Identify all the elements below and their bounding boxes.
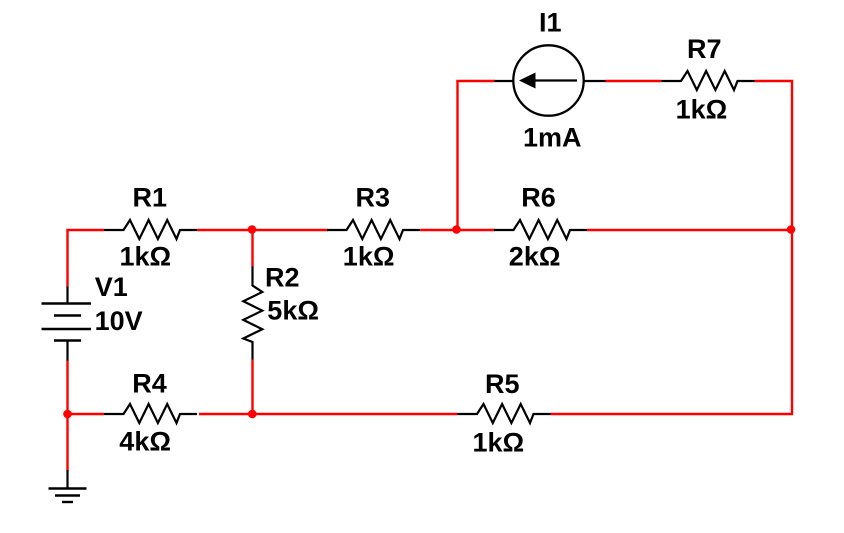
svg-text:1kΩ: 1kΩ — [120, 241, 172, 271]
node B — [248, 225, 257, 234]
svg-text:R1: R1 — [133, 183, 168, 213]
resistor R4 — [104, 368, 197, 456]
node D — [787, 225, 796, 234]
svg-text:1kΩ: 1kΩ — [473, 428, 525, 458]
wire — [456, 80, 495, 82]
wire — [420, 229, 495, 231]
ground — [49, 470, 87, 502]
svg-text:R6: R6 — [521, 183, 556, 213]
node G — [63, 410, 72, 419]
resistor R5 — [458, 369, 551, 458]
svg-text:R3: R3 — [356, 183, 391, 213]
svg-text:R2: R2 — [265, 263, 300, 293]
wire — [456, 81, 458, 230]
svg-text:1mA: 1mA — [523, 123, 582, 153]
wire — [606, 80, 662, 82]
wire — [251, 230, 253, 267]
resistor R3 — [327, 183, 420, 272]
resistor R1 — [104, 183, 197, 272]
svg-text:4kΩ: 4kΩ — [119, 427, 171, 457]
battery V1 — [42, 272, 143, 361]
svg-text:I1: I1 — [539, 8, 562, 38]
wire — [197, 229, 328, 231]
wire — [551, 81, 793, 414]
svg-text:1kΩ: 1kΩ — [343, 241, 395, 271]
wire — [199, 413, 458, 415]
svg-text:2kΩ: 2kΩ — [509, 242, 561, 272]
svg-text:1kΩ: 1kΩ — [676, 95, 728, 125]
svg-text:R5: R5 — [485, 369, 520, 399]
resistor R2 — [243, 263, 319, 360]
svg-text:V1: V1 — [95, 272, 128, 302]
node H — [248, 410, 257, 419]
wire — [251, 360, 253, 415]
resistor R7 — [662, 34, 755, 125]
svg-text:R4: R4 — [132, 368, 167, 398]
svg-text:10V: 10V — [95, 306, 143, 336]
current source I1 — [495, 8, 606, 153]
wire — [68, 413, 105, 415]
wire — [68, 230, 105, 288]
svg-text:5kΩ: 5kΩ — [267, 296, 319, 326]
wire — [66, 360, 68, 471]
svg-text:R7: R7 — [687, 34, 722, 64]
node C — [452, 225, 461, 234]
resistor R6 — [494, 183, 587, 272]
wire — [587, 229, 792, 231]
